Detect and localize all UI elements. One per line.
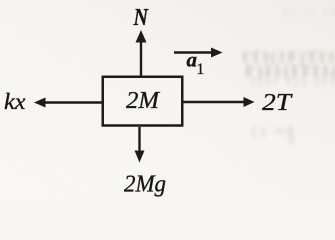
svg-text:]: ] [288, 125, 294, 146]
svg-text:2T: 2T [262, 90, 293, 116]
svg-text:2Mg: 2Mg [124, 171, 166, 198]
svg-text:kx: kx [4, 89, 26, 114]
svg-text:1: 1 [197, 61, 205, 78]
svg-text:N: N [133, 5, 150, 31]
svg-text:a: a [187, 48, 198, 72]
svg-text:— ·• —: — ·• — [254, 148, 301, 160]
svg-text:2M: 2M [126, 87, 161, 114]
